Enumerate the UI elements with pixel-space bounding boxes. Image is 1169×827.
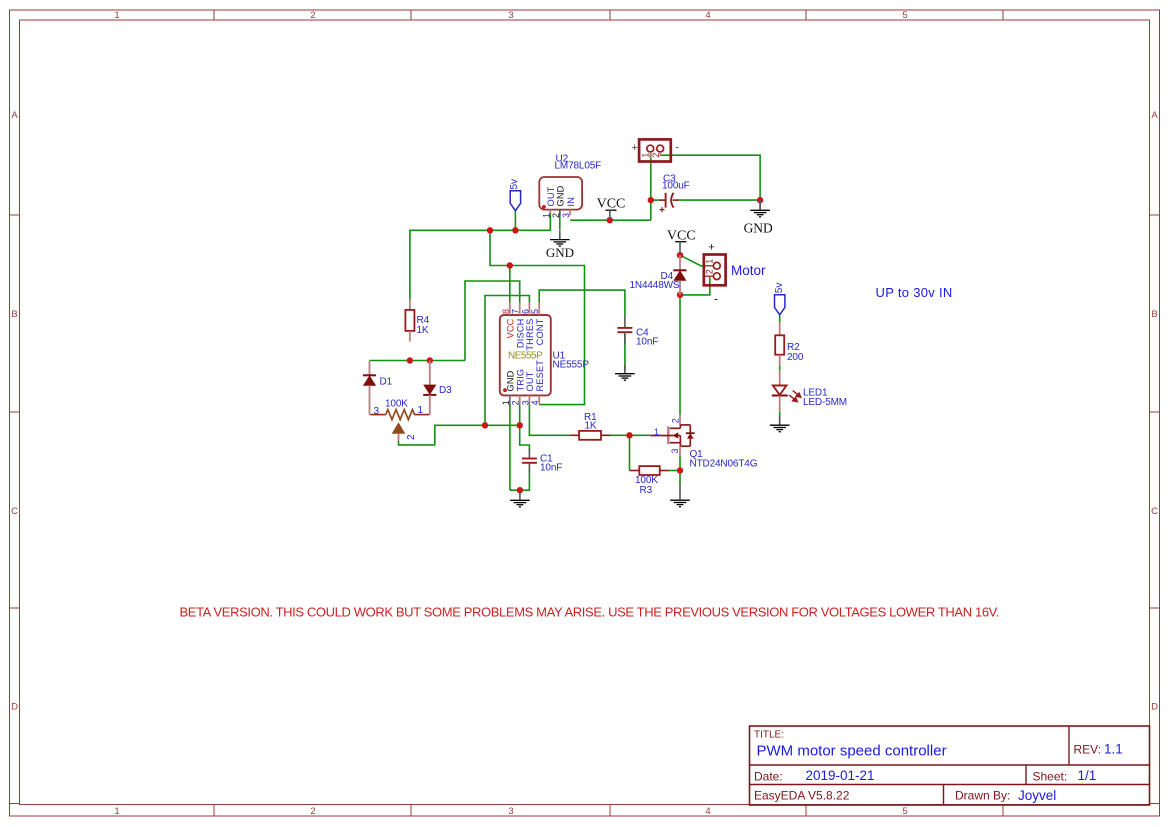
svg-text:-: - <box>675 142 679 154</box>
connector input header (+/-) <box>631 139 679 161</box>
svg-text:3: 3 <box>508 10 513 21</box>
wire U2 OUT rail (5v) <box>410 212 550 301</box>
svg-text:TITLE:: TITLE: <box>754 730 784 741</box>
svg-text:LM78L05F: LM78L05F <box>555 161 602 172</box>
svg-text:CONT: CONT <box>535 318 545 345</box>
svg-text:1: 1 <box>654 427 659 437</box>
resistor R3 100K <box>630 466 669 496</box>
svg-text:1/1: 1/1 <box>1078 768 1097 783</box>
junction C3 right / GND <box>757 197 763 203</box>
ground under U2 pin2 <box>546 210 574 260</box>
svg-text:C: C <box>1151 506 1158 517</box>
svg-text:3: 3 <box>561 213 571 218</box>
svg-text:5: 5 <box>530 309 540 314</box>
svg-text:B: B <box>1151 309 1157 320</box>
svg-text:C: C <box>11 506 18 517</box>
svg-text:IN: IN <box>566 197 576 207</box>
junction C3 left <box>648 197 654 203</box>
svg-text:B: B <box>11 309 17 320</box>
wire C1 bottom to gnd rail <box>510 472 530 491</box>
svg-text:TRIG: TRIG <box>515 369 525 392</box>
svg-text:PWM motor speed controller: PWM motor speed controller <box>757 743 947 760</box>
ground under C4 <box>615 365 635 381</box>
svg-text:1: 1 <box>114 10 119 21</box>
svg-text:200: 200 <box>787 352 804 363</box>
svg-text:5: 5 <box>902 10 907 21</box>
svg-text:-: - <box>714 291 718 305</box>
svg-text:D3: D3 <box>439 385 452 396</box>
svg-text:REV:: REV: <box>1074 743 1102 757</box>
svg-text:2: 2 <box>704 269 714 274</box>
wire 555 pin1 GND down <box>509 404 511 490</box>
svg-text:3: 3 <box>508 806 513 817</box>
svg-text:VCC: VCC <box>597 197 626 212</box>
ground under LED1 <box>770 416 790 432</box>
junction source node <box>677 467 683 473</box>
ground under Q1 source <box>670 484 690 507</box>
wire 555 pin6 THRES down-left <box>485 296 529 426</box>
svg-text:7: 7 <box>511 309 521 314</box>
svg-text:GND: GND <box>744 220 773 235</box>
svg-text:1: 1 <box>541 213 551 218</box>
wire D4 bottom to motor pin2 <box>680 276 710 295</box>
svg-text:BETA VERSION. THIS COULD WORK: BETA VERSION. THIS COULD WORK BUT SOME P… <box>180 605 1000 620</box>
wire R2 to LED1 <box>779 365 781 371</box>
connector Motor <box>704 241 766 305</box>
svg-text:100K: 100K <box>385 398 408 409</box>
junction D4 bottom <box>677 292 683 298</box>
junction TRIG pin <box>517 422 523 428</box>
svg-text:6: 6 <box>520 309 530 314</box>
junction D3 top <box>427 357 433 363</box>
svg-text:1K: 1K <box>417 325 429 336</box>
svg-text:3: 3 <box>670 448 680 453</box>
svg-text:10nF: 10nF <box>636 336 658 347</box>
svg-text:NE555P: NE555P <box>508 351 543 362</box>
junction R4 bottom <box>407 357 413 363</box>
svg-text:NTD24N06T4G: NTD24N06T4G <box>690 459 758 470</box>
svg-text:GND: GND <box>556 185 566 206</box>
wire 5v flag stub <box>514 211 516 231</box>
wire 555 pin2 TRIG down <box>520 405 530 450</box>
mosfet Q1 NTD24N06T4G <box>651 415 758 470</box>
svg-text:1: 1 <box>501 400 511 405</box>
wire input connector pin2 to GND corner <box>661 155 760 200</box>
diode D1 <box>363 361 393 415</box>
svg-text:D: D <box>11 702 18 713</box>
svg-text:A: A <box>11 110 18 121</box>
svg-text:4: 4 <box>705 806 710 817</box>
wire 5v rail down-right branch to 555 VCC and RESET <box>490 230 585 404</box>
svg-text:1: 1 <box>704 259 714 264</box>
wire 5v flag to R2 <box>779 315 781 323</box>
wire R1 right to Q1 gate <box>610 434 650 436</box>
svg-text:R3: R3 <box>640 485 653 496</box>
svg-text:4: 4 <box>705 10 710 21</box>
svg-text:1: 1 <box>640 153 650 158</box>
wire VIN rail to U2 IN <box>570 219 651 221</box>
svg-text:Motor: Motor <box>731 263 766 278</box>
wire Q1 source down to ground <box>679 456 681 484</box>
junction 5v rail at x490 <box>487 227 493 233</box>
resistor R1 1K <box>570 412 611 440</box>
junction 5v rail at flag <box>512 227 518 233</box>
capacitor C4 10nF <box>617 317 658 348</box>
capacitor C3 100uF <box>660 174 690 213</box>
svg-text:GND: GND <box>546 245 574 260</box>
svg-text:1N4448WS: 1N4448WS <box>630 280 680 291</box>
svg-text:2: 2 <box>651 153 661 158</box>
svg-text:Drawn By:: Drawn By: <box>955 789 1010 803</box>
ground under C1 / 555 GND <box>510 491 530 507</box>
diode D4 1N4448WS <box>630 255 687 295</box>
svg-text:VCC: VCC <box>506 318 516 338</box>
svg-text:D: D <box>1151 702 1158 713</box>
TITLE BLOCK <box>750 726 1150 805</box>
timer U1 NE555P <box>500 303 590 406</box>
svg-text:4: 4 <box>530 400 540 405</box>
wire 555 pin3 OUT to R1 <box>529 405 570 436</box>
diode D3 <box>423 361 452 415</box>
VCC symbol at U2 output <box>597 197 626 221</box>
junction VCC D4 top <box>677 252 683 258</box>
svg-text:10nF: 10nF <box>540 463 562 474</box>
wire LED1 to ground <box>779 412 781 419</box>
wire pot wiper jog to TRIG rail <box>399 425 520 445</box>
potentiometer 100K <box>370 398 429 441</box>
svg-text:NE555P: NE555P <box>553 360 590 371</box>
svg-text:1: 1 <box>418 405 424 416</box>
junction gate node <box>626 432 632 438</box>
ground right of C3 <box>744 200 773 235</box>
svg-text:1K: 1K <box>585 421 597 432</box>
junction C1 ground rail <box>517 487 523 493</box>
svg-text:+: + <box>631 142 637 154</box>
wire gate node down to R3 <box>629 435 631 470</box>
wire C3 right to GND corner <box>678 199 761 201</box>
svg-text:RESET: RESET <box>535 360 545 392</box>
junction THRES/TRIG rail <box>482 422 488 428</box>
svg-text:+: + <box>708 241 714 253</box>
svg-text:UP to 30v IN: UP to 30v IN <box>876 285 953 300</box>
svg-text:2: 2 <box>310 10 315 21</box>
svg-text:Sheet:: Sheet: <box>1033 770 1068 784</box>
svg-text:OUT: OUT <box>525 371 535 391</box>
svg-text:THRES: THRES <box>525 319 535 351</box>
resistor R4 1K <box>405 299 429 342</box>
wire 555 pin5 CONT to C4 <box>539 290 625 316</box>
wire input connector pin1 down to VIN rail <box>650 152 652 220</box>
wire D4 bottom down to Q1 drain <box>679 295 681 415</box>
svg-text:Date:: Date: <box>754 770 783 784</box>
wire 555 pin7 DISCH to D1/D3 rail <box>465 281 520 361</box>
net flag 5v (left) <box>509 179 521 211</box>
svg-text:3: 3 <box>374 406 380 417</box>
wire 555 pin8 stub up <box>509 266 511 303</box>
svg-text:2: 2 <box>406 434 417 440</box>
svg-text:GND: GND <box>506 370 516 391</box>
svg-text:DISCH: DISCH <box>515 319 525 349</box>
svg-text:100uF: 100uF <box>662 181 690 192</box>
svg-text:OUT: OUT <box>546 186 556 206</box>
svg-text:5v: 5v <box>509 179 520 190</box>
svg-text:1: 1 <box>114 806 119 817</box>
wire C4 bottom to ground <box>624 334 626 371</box>
svg-text:2019-01-21: 2019-01-21 <box>806 768 875 783</box>
regulator U2 LM78L05F <box>539 154 601 219</box>
wire VCC to D4 and motor diagonal <box>680 255 706 266</box>
wire R3 right to source node <box>669 470 681 472</box>
svg-text:2: 2 <box>511 400 521 405</box>
svg-text:D1: D1 <box>380 377 393 388</box>
svg-text:8: 8 <box>501 309 511 314</box>
svg-text:1.1: 1.1 <box>1104 742 1123 757</box>
svg-text:5v: 5v <box>774 283 785 294</box>
svg-text:2: 2 <box>310 806 315 817</box>
svg-text:EasyEDA V5.8.22: EasyEDA V5.8.22 <box>754 789 850 803</box>
svg-text:LED-5MM: LED-5MM <box>803 397 847 408</box>
VCC symbol above D4 <box>667 229 696 253</box>
wire C3 left branch <box>651 199 661 201</box>
svg-text:3: 3 <box>520 400 530 405</box>
junction VIN/VCC tap <box>607 217 613 223</box>
wire D1 D3 R4 top rail <box>370 360 466 362</box>
junction 555 VCC pin8 <box>507 262 513 268</box>
LED1 LED-5MM <box>772 370 847 412</box>
svg-text:Joyvel: Joyvel <box>1018 788 1056 803</box>
resistor R2 200 <box>775 322 804 366</box>
svg-text:5: 5 <box>902 806 907 817</box>
capacitor C1 10nF <box>522 449 562 474</box>
net flag 5v (right) <box>774 283 785 315</box>
svg-text:2: 2 <box>670 418 680 423</box>
svg-text:A: A <box>1151 110 1158 121</box>
